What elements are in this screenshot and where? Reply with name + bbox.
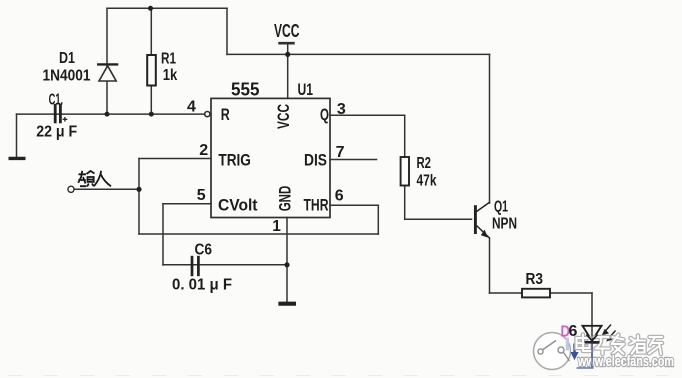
node junction top of R1 — [148, 6, 153, 11]
wire THR feedback vertical — [377, 205, 379, 234]
IC U1 555 box — [211, 98, 330, 217]
ground left — [9, 157, 26, 160]
svg-text:4: 4 — [187, 98, 196, 115]
ground chip pin1 — [278, 302, 296, 306]
capacitor C1 — [55, 104, 67, 124]
svg-text:0. 01 μ F: 0. 01 μ F — [172, 277, 232, 294]
wire R3 right lead — [550, 292, 592, 294]
blue mark bar — [566, 338, 569, 351]
svg-text:R: R — [221, 106, 230, 124]
bottom faint dashes — [8, 375, 668, 377]
wire VCC rail — [227, 53, 490, 55]
node junction input — [136, 187, 141, 192]
watermark logo circle — [534, 333, 571, 370]
wire input rail y114 — [17, 113, 205, 115]
diode D1 — [97, 64, 118, 81]
wire D1 branch vertical — [106, 8, 108, 114]
wire LED anode vertical — [591, 293, 593, 342]
transistor Q1 — [475, 202, 490, 239]
svg-text:D1: D1 — [59, 50, 75, 67]
wire GND stem — [286, 218, 288, 302]
wire CVolt pin 5 — [163, 203, 211, 205]
LED D6 arrows — [603, 325, 616, 341]
svg-text:3: 3 — [337, 101, 346, 118]
power VCC symbol — [278, 42, 294, 45]
svg-text:R2: R2 — [417, 155, 432, 172]
wire input branch vertical — [138, 159, 140, 235]
node junction D1 bottom — [105, 112, 110, 117]
watermark CJK glyphs — [577, 335, 663, 355]
pin bubble R — [205, 112, 210, 117]
node junction C6 to GND — [284, 262, 289, 267]
blue mark arrow — [571, 344, 578, 360]
svg-text:Q: Q — [320, 106, 329, 124]
wire collector vertical — [489, 54, 491, 203]
wire step down to VCC rail — [226, 8, 228, 54]
wire R1 branch vertical — [150, 8, 152, 114]
watermark url underline — [577, 367, 594, 369]
svg-text:DIS: DIS — [304, 151, 327, 169]
wire TRIG pin 2 — [139, 158, 211, 160]
wire VCC stem to chip — [287, 43, 289, 98]
label input CJK — [78, 171, 111, 187]
resistor R2 — [401, 157, 409, 186]
transistor Q1 emitter arrow — [481, 230, 488, 238]
wire LED cathode vertical blue — [591, 344, 593, 369]
wire R3 left lead — [490, 292, 523, 294]
node junction VCC rail — [285, 52, 290, 57]
terminal input circle — [68, 186, 74, 192]
svg-text:NPN: NPN — [492, 216, 517, 233]
wire LED cathode blue redraw — [591, 344, 593, 368]
svg-text:5: 5 — [197, 187, 206, 204]
wire THR feedback long — [139, 233, 378, 235]
svg-text:22 μ F: 22 μ F — [36, 124, 77, 141]
wire input lead — [74, 188, 139, 190]
wire C6 rail — [163, 264, 287, 266]
svg-text:1N4001: 1N4001 — [43, 68, 91, 85]
svg-text:7: 7 — [336, 144, 345, 161]
wire Q pin 3 — [330, 114, 405, 116]
wire DIS pin 7 stub — [330, 159, 377, 161]
svg-text:47k: 47k — [417, 173, 437, 190]
svg-text:GND: GND — [277, 186, 295, 212]
svg-text:VCC: VCC — [274, 21, 300, 41]
wire top rail — [107, 7, 227, 9]
svg-text:C1.: C1. — [49, 92, 64, 109]
svg-text:R1: R1 — [161, 51, 176, 68]
wire CVolt branch down — [162, 204, 164, 265]
wire base lead — [405, 218, 472, 220]
LED D6 — [583, 326, 602, 343]
wire R2 top lead — [404, 115, 406, 157]
svg-text:THR: THR — [304, 197, 329, 215]
LED D6 cathode redraw over watermark — [585, 335, 600, 343]
svg-text:TRIG: TRIG — [218, 151, 251, 169]
svg-text:2: 2 — [199, 142, 208, 159]
wire left ground stem — [16, 114, 18, 157]
svg-text:1: 1 — [272, 218, 281, 235]
node junction R1 bottom — [149, 112, 154, 117]
svg-text:1k: 1k — [163, 67, 178, 84]
wire R2 bottom lead — [404, 186, 406, 220]
svg-text:Q1: Q1 — [494, 199, 508, 216]
capacitor C6 — [192, 256, 198, 276]
wire emitter vertical — [489, 239, 491, 294]
resistor R3 — [522, 289, 550, 298]
svg-text:CVolt: CVolt — [218, 197, 258, 215]
wire THR pin 6 — [330, 204, 378, 206]
svg-text:C6: C6 — [195, 242, 213, 259]
svg-text:6: 6 — [335, 188, 344, 205]
svg-text:R3: R3 — [526, 271, 544, 288]
svg-text:U1: U1 — [298, 80, 314, 99]
resistor R1 — [147, 55, 156, 86]
svg-text:555: 555 — [231, 80, 260, 100]
svg-text:VCC: VCC — [275, 104, 293, 129]
